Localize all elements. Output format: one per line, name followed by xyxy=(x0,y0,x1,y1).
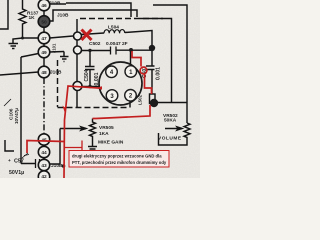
svg-text:+: + xyxy=(8,159,11,164)
svg-text:PTT, przechodni przez mikrofon: PTT, przechodni przez mikrofon drummimy … xyxy=(72,160,167,165)
svg-text:10V47µ: 10V47µ xyxy=(14,108,19,124)
svg-text:J10B: J10B xyxy=(57,13,69,19)
svg-text:VR505: VR505 xyxy=(99,125,114,131)
svg-text:43: 43 xyxy=(41,163,47,169)
svg-text:44: 44 xyxy=(41,150,47,156)
svg-text:J101: J101 xyxy=(52,43,57,53)
svg-text:48: 48 xyxy=(41,70,47,76)
svg-text:50KA: 50KA xyxy=(164,118,177,124)
svg-text:49: 49 xyxy=(41,50,47,56)
svg-text:MIKE GAIN: MIKE GAIN xyxy=(98,140,124,146)
svg-text:drugi elektryczny poprzez wrzu: drugi elektryczny poprzez wrzucone GND d… xyxy=(72,154,162,159)
svg-text:C502: C502 xyxy=(89,41,101,47)
svg-text:C504: C504 xyxy=(84,69,90,81)
svg-text:42: 42 xyxy=(41,174,47,178)
svg-text:46: 46 xyxy=(41,3,47,9)
svg-text:47: 47 xyxy=(41,36,47,42)
svg-text:50V1µ: 50V1µ xyxy=(9,170,24,176)
svg-text:50: 50 xyxy=(41,19,47,25)
svg-text:0.001: 0.001 xyxy=(156,67,162,80)
svg-text:1KA: 1KA xyxy=(99,131,109,137)
svg-text:0.001: 0.001 xyxy=(94,72,100,85)
svg-text:J10B: J10B xyxy=(51,163,63,169)
svg-text:J10B: J10B xyxy=(50,70,62,76)
svg-text:VOLUME: VOLUME xyxy=(158,136,182,142)
svg-text:L504: L504 xyxy=(108,25,119,31)
svg-text:1K: 1K xyxy=(29,15,36,21)
svg-text:J10B: J10B xyxy=(49,1,61,7)
svg-text:0.0047 2F: 0.0047 2F xyxy=(106,41,128,47)
svg-text:C57: C57 xyxy=(14,159,24,165)
svg-text:L502: L502 xyxy=(138,94,143,105)
